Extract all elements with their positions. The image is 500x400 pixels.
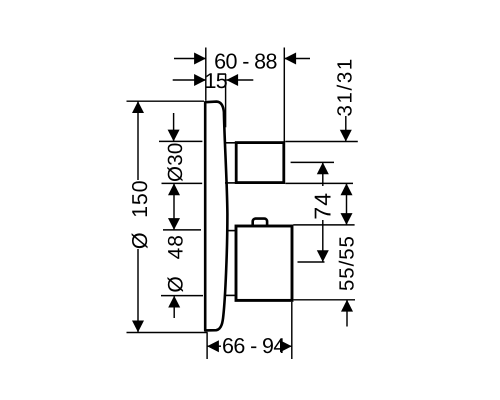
extension line lower stem bottom, left (O48) <box>161 295 203 297</box>
dim line tail 60-88 right <box>284 58 310 60</box>
dim line tail 55/55 bottom <box>346 300 348 327</box>
extension line bottom of plate (O150) <box>127 332 208 334</box>
arrow right chain middle lower (points down) <box>341 213 353 225</box>
svg-text:Ø 48: Ø 48 <box>165 234 188 293</box>
arrow 15 right (points left) <box>226 74 238 86</box>
dim line tail 60-88 left <box>174 58 206 60</box>
button on lower knob <box>253 219 267 229</box>
dim line 74 lower segment <box>322 220 324 262</box>
svg-text:55/55: 55/55 <box>335 235 358 291</box>
svg-text:Ø30: Ø30 <box>164 142 187 182</box>
arrow 60-88 right (points left) <box>284 53 296 65</box>
extension line upper knob centerline, right (74) <box>291 161 334 163</box>
svg-text:66 - 94: 66 - 94 <box>222 334 285 358</box>
dim line tail O48 bottom <box>173 296 175 318</box>
dim line 74 upper segment <box>322 162 324 186</box>
svg-text:31/31: 31/31 <box>334 57 357 116</box>
extension line upper knob top, right (31/31) <box>285 141 358 143</box>
svg-text:15: 15 <box>204 69 227 93</box>
lower knob (O48 handle) <box>236 226 292 300</box>
extension line right of 15 (plate max bulge) <box>225 74 227 127</box>
arrow 31/31 (points down) <box>340 130 352 142</box>
svg-text:Ø 150: Ø 150 <box>128 180 152 250</box>
extension line lower stem top, left (O48) <box>163 229 201 231</box>
arrow O48 top (points down) <box>168 218 180 230</box>
dim line O150 lower segment <box>137 249 139 332</box>
upper knob (O30 handle) <box>236 143 284 183</box>
dim line tail O30 top <box>173 113 175 141</box>
dim line tail 15 left <box>173 79 206 81</box>
arrow O48 bottom (points up) <box>168 296 180 308</box>
escutcheon plate (side view) <box>205 102 227 331</box>
extension line lower knob top, right <box>293 224 354 226</box>
dim line between right chain arrows <box>346 183 348 225</box>
dim line between O30 bottom and O48 top arrows <box>173 183 175 230</box>
extension line upper knob top, left (O30) <box>159 140 202 142</box>
dim line 66-94 left stub <box>207 345 221 347</box>
arrow O150 bottom (points down) <box>132 321 144 333</box>
arrow 74 bottom (points down) <box>317 250 329 262</box>
extension line top of plate (O150) <box>127 100 205 102</box>
arrow O30 top (points down) <box>168 130 180 142</box>
arrow 66-94 right (points right) <box>280 340 292 352</box>
extension line 66-94 left <box>206 333 208 360</box>
svg-text:74: 74 <box>310 192 336 220</box>
arrow O30 bottom (points up) <box>168 183 180 195</box>
dim line tail 31/31 <box>345 116 347 142</box>
dim line O150 upper segment <box>137 101 139 180</box>
arrow O150 top (points up) <box>132 101 144 113</box>
extension line left of plate (60-88 / 15) <box>205 48 207 101</box>
extension line upper knob bottom, right <box>285 182 353 184</box>
extension line 66-94 right <box>291 302 293 359</box>
arrow 74 top (points up) <box>317 162 329 174</box>
arrow right chain middle upper (points up) <box>341 183 353 195</box>
lower stem bottom line <box>226 294 237 296</box>
extension line lower knob bottom, right (55/55) <box>294 299 356 301</box>
arrow 60-88 left (points right) <box>194 53 206 65</box>
upper stem bottom line <box>225 182 237 184</box>
lower stem top line <box>226 230 237 232</box>
extension line upper knob bottom, left (O30) <box>162 182 203 184</box>
upper stem top line <box>225 142 237 144</box>
extension line right (60-88, knob front face) <box>283 48 285 143</box>
dim line 66-94 right stub <box>285 345 292 347</box>
arrow 55/55 bottom (points up) <box>341 300 353 312</box>
dim line tail 15 right <box>226 79 253 81</box>
extension line lower knob centerline, right (74) <box>298 261 325 263</box>
arrow 15 left (points right) <box>194 74 206 86</box>
arrow 66-94 left (points left) <box>207 340 219 352</box>
